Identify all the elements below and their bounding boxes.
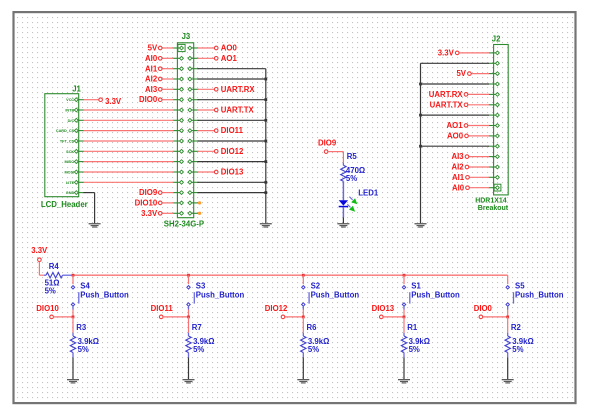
- svg-text:Push_Button: Push_Button: [80, 290, 129, 299]
- svg-text:Push_Button: Push_Button: [311, 290, 360, 299]
- ground (R6): [297, 379, 309, 384]
- svg-text:AI3: AI3: [451, 152, 464, 161]
- wire J3 pin row 15 to ground bus: [198, 191, 268, 194]
- terminal DIO9 (J3 left): [139, 188, 174, 197]
- connector J1 LCD_Header: [41, 84, 88, 209]
- svg-text:DIO10: DIO10: [135, 199, 158, 208]
- wire J1 pin8 to J3: [83, 171, 173, 173]
- wire J3 pin row 8 to ground bus: [198, 119, 268, 122]
- junction DIO12/R6: [302, 316, 305, 319]
- terminal DIO13 (J3 right): [198, 168, 244, 177]
- svg-text:AI0: AI0: [452, 183, 465, 192]
- svg-text:R3: R3: [76, 323, 87, 332]
- svg-text:3.3V: 3.3V: [31, 246, 48, 255]
- svg-text:UART.TX: UART.TX: [430, 100, 464, 109]
- no-connect DIO10 pin: [198, 201, 201, 204]
- svg-text:DIO11: DIO11: [151, 304, 174, 313]
- junction DIO11/R7: [187, 316, 190, 319]
- resistor R1 3.9k: [401, 317, 430, 358]
- svg-text:R6: R6: [307, 323, 318, 332]
- ground (R7): [183, 379, 195, 384]
- terminal AO0 (J2): [447, 132, 489, 141]
- wire S3 to junction: [188, 310, 190, 317]
- junction DIO0/R2: [506, 316, 509, 319]
- terminal AI1 (J2): [452, 173, 489, 182]
- svg-text:R4: R4: [49, 262, 60, 271]
- wire S5 to junction: [507, 310, 509, 317]
- svg-text:Breakout: Breakout: [478, 205, 509, 212]
- wire J1 pin6 to J3: [83, 150, 173, 152]
- svg-text:AI1: AI1: [145, 64, 158, 73]
- terminal UART.RX (J2): [429, 90, 489, 99]
- wire J2 pin row 7 to ground bus: [419, 114, 489, 117]
- wire LED to ground: [342, 207, 344, 223]
- svg-text:S3: S3: [196, 281, 206, 290]
- wire J1 pin5 to J3: [83, 140, 173, 142]
- ground bus wire (J3 right): [265, 69, 267, 224]
- ground (J2 bus): [415, 223, 427, 228]
- svg-text:3.3V: 3.3V: [105, 97, 122, 106]
- svg-text:AI0: AI0: [145, 54, 158, 63]
- svg-text:VCC: VCC: [66, 98, 74, 102]
- terminal AI1 (J3 left): [145, 64, 173, 73]
- wire J1 GND to ground: [83, 193, 94, 224]
- junction rail/S4: [72, 274, 75, 277]
- resistor R6 3.9k: [301, 317, 330, 358]
- ground (J1): [89, 223, 101, 228]
- wire J3 pin row 10 to ground bus: [198, 140, 268, 143]
- resistor R7 3.9k: [186, 317, 215, 358]
- terminal AI2 (J3 left): [145, 75, 173, 84]
- terminal DIO12: [265, 304, 304, 319]
- wire DIO9 to R5: [342, 152, 344, 163]
- svg-text:CARD_CS: CARD_CS: [56, 129, 75, 133]
- switch S2 Push_Button: [302, 275, 360, 309]
- terminal UART.TX (J2): [430, 100, 489, 109]
- wire J3 pin row 3 to ground bus: [198, 68, 266, 70]
- terminal AI0 (J2): [452, 183, 489, 192]
- wire 3.3V rail: [72, 274, 508, 276]
- terminal DIO0: [474, 304, 508, 319]
- svg-text:AO1: AO1: [221, 54, 238, 63]
- svg-text:SH2-34G-P: SH2-34G-P: [164, 219, 204, 228]
- svg-text:J3: J3: [182, 32, 191, 41]
- junction rail/S2: [302, 274, 305, 277]
- svg-text:R5: R5: [347, 152, 358, 161]
- wire R1 to ground: [403, 358, 405, 380]
- connector J3 SH2-34G-P: [164, 32, 204, 229]
- svg-text:5%: 5%: [409, 345, 420, 354]
- svg-text:5%: 5%: [193, 345, 204, 354]
- terminal DIO10: [36, 304, 73, 319]
- svg-text:AI3: AI3: [145, 85, 158, 94]
- resistor R2 3.9k: [505, 317, 534, 358]
- wire R7 to ground: [188, 358, 190, 380]
- svg-text:S2: S2: [311, 281, 321, 290]
- wire J2 pin row 10 to ground bus: [419, 145, 489, 148]
- terminal DIO11: [151, 304, 189, 319]
- switch S3 Push_Button: [187, 275, 245, 309]
- svg-text:Push_Button: Push_Button: [411, 290, 460, 299]
- svg-text:D/C: D/C: [68, 119, 75, 123]
- wire J1 pin4 to J3: [83, 130, 173, 132]
- svg-text:DIO13: DIO13: [221, 168, 244, 177]
- junction rail/S1: [403, 274, 406, 277]
- terminal 5V (J2): [456, 69, 489, 78]
- terminal 3.3V (J2): [438, 49, 489, 58]
- wire J1 pin7 to J3: [83, 161, 173, 163]
- svg-text:AI1: AI1: [452, 173, 465, 182]
- ground (R3): [67, 379, 79, 384]
- terminal AI3 (J3 left): [145, 85, 173, 94]
- wire S1 to junction: [403, 310, 405, 317]
- wire J1 pin3 to J3: [83, 119, 173, 121]
- svg-text:LITE: LITE: [66, 181, 75, 185]
- ground (J3 bus): [260, 223, 272, 228]
- svg-text:AO1: AO1: [447, 121, 464, 130]
- switch S5 Push_Button: [506, 275, 564, 309]
- svg-text:5%: 5%: [346, 174, 357, 183]
- terminal 3.3V (J3 left): [141, 209, 173, 218]
- svg-text:LCD_Header: LCD_Header: [41, 200, 88, 209]
- wire J3 pin row 12 to ground bus: [198, 160, 268, 163]
- svg-text:R7: R7: [192, 323, 202, 332]
- resistor R4 51 ohm: [44, 262, 72, 296]
- svg-text:DIO13: DIO13: [372, 304, 395, 313]
- svg-text:J2: J2: [492, 35, 501, 44]
- junction rail/S3: [187, 274, 190, 277]
- wire J2 pin row 4 to ground bus: [419, 83, 489, 86]
- terminal DIO12 (J3 right): [198, 147, 244, 156]
- terminal 3.3V (pullup rail): [31, 246, 48, 275]
- connector J2 HDR1X14 Breakout: [475, 35, 509, 213]
- svg-text:3.3V: 3.3V: [438, 49, 455, 58]
- svg-text:DIO12: DIO12: [265, 304, 288, 313]
- terminal UART.RX (J3 right): [198, 85, 256, 94]
- svg-text:5%: 5%: [512, 345, 523, 354]
- svg-text:MISO: MISO: [64, 160, 74, 164]
- svg-text:UART.RX: UART.RX: [221, 85, 256, 94]
- terminal DIO9 (LED branch): [318, 138, 343, 153]
- terminal DIO13: [372, 304, 404, 319]
- svg-text:UART.TX: UART.TX: [221, 106, 255, 115]
- junction DIO13/R1: [403, 316, 406, 319]
- svg-text:DIO12: DIO12: [221, 147, 244, 156]
- terminal DIO10 (J3 left): [135, 199, 174, 208]
- svg-text:SCK: SCK: [66, 150, 74, 154]
- svg-text:HDR1X14: HDR1X14: [475, 197, 507, 204]
- svg-text:DIO11: DIO11: [221, 126, 244, 135]
- svg-text:5%: 5%: [308, 345, 319, 354]
- svg-text:MOSI: MOSI: [64, 171, 74, 175]
- svg-text:UART.RX: UART.RX: [429, 90, 464, 99]
- svg-text:J1: J1: [72, 84, 81, 93]
- terminal AI0 (J3 left): [145, 54, 173, 63]
- LED D1 (LED1): [339, 188, 379, 211]
- wire J1 pin2 to J3: [83, 109, 173, 111]
- svg-text:5V: 5V: [456, 69, 466, 78]
- svg-text:AO0: AO0: [221, 44, 238, 53]
- terminal AO0 (J3 right): [198, 44, 238, 53]
- wire J1 pin9 to J3: [83, 181, 173, 183]
- svg-text:3.3V: 3.3V: [141, 209, 158, 218]
- ground (R2): [502, 379, 514, 384]
- no-connect 3.3V pin: [198, 212, 201, 215]
- svg-text:AO0: AO0: [447, 132, 464, 141]
- wire J3 pin row 14 to ground bus: [198, 181, 268, 184]
- terminal DIO0 (J3 left): [139, 95, 174, 104]
- svg-text:DIO10: DIO10: [36, 304, 59, 313]
- resistor R5 470 ohm: [341, 152, 365, 200]
- ground (R1): [398, 379, 410, 384]
- svg-text:INTB: INTB: [65, 109, 74, 113]
- switch S4 Push_Button: [71, 275, 129, 309]
- svg-text:R2: R2: [511, 323, 522, 332]
- svg-text:S4: S4: [80, 281, 90, 290]
- wire S2 to junction: [302, 310, 304, 317]
- svg-text:5V: 5V: [148, 44, 158, 53]
- svg-text:GND: GND: [66, 191, 75, 195]
- junction DIO10/R3: [72, 316, 75, 319]
- svg-text:Push_Button: Push_Button: [196, 290, 245, 299]
- svg-text:DIO9: DIO9: [139, 188, 158, 197]
- wire J3 pin row 6 to ground bus: [198, 98, 268, 101]
- terminal AI2 (J2): [451, 163, 489, 172]
- terminal AO1 (J2): [447, 121, 489, 130]
- svg-text:5%: 5%: [78, 345, 89, 354]
- svg-text:AI2: AI2: [451, 163, 464, 172]
- svg-text:AI2: AI2: [145, 75, 158, 84]
- svg-text:R1: R1: [407, 323, 418, 332]
- svg-text:DIO9: DIO9: [318, 138, 337, 147]
- wire R3 to ground: [72, 358, 74, 380]
- svg-text:TFT_CS: TFT_CS: [60, 140, 75, 144]
- switch S1 Push_Button: [402, 275, 460, 309]
- terminal DIO11 (J3 right): [198, 126, 244, 135]
- wire J2 pin row 2 to ground bus: [421, 62, 490, 64]
- terminal AO1 (J3 right): [198, 54, 238, 63]
- svg-text:DIO0: DIO0: [474, 304, 493, 313]
- ground bus wire (J2 left): [420, 63, 422, 223]
- svg-text:DIO0: DIO0: [139, 95, 158, 104]
- ground (LED): [337, 223, 349, 228]
- terminal 5V (J3 left): [148, 44, 174, 53]
- wire R2 to ground: [507, 358, 509, 380]
- svg-text:LED1: LED1: [358, 188, 379, 197]
- wire R6 to ground: [302, 358, 304, 380]
- svg-text:S1: S1: [411, 281, 421, 290]
- svg-text:5%: 5%: [45, 287, 56, 296]
- terminal AI3 (J2): [451, 152, 489, 161]
- wire S4 to junction: [72, 310, 74, 317]
- svg-text:Push_Button: Push_Button: [515, 290, 564, 299]
- terminal UART.TX (J3 right): [198, 106, 255, 115]
- resistor R3 3.9k: [70, 317, 99, 358]
- wire J3 pin row 4 to ground bus: [198, 78, 268, 81]
- svg-text:S5: S5: [515, 281, 525, 290]
- terminal 3.3V (J1 pin1): [83, 97, 122, 106]
